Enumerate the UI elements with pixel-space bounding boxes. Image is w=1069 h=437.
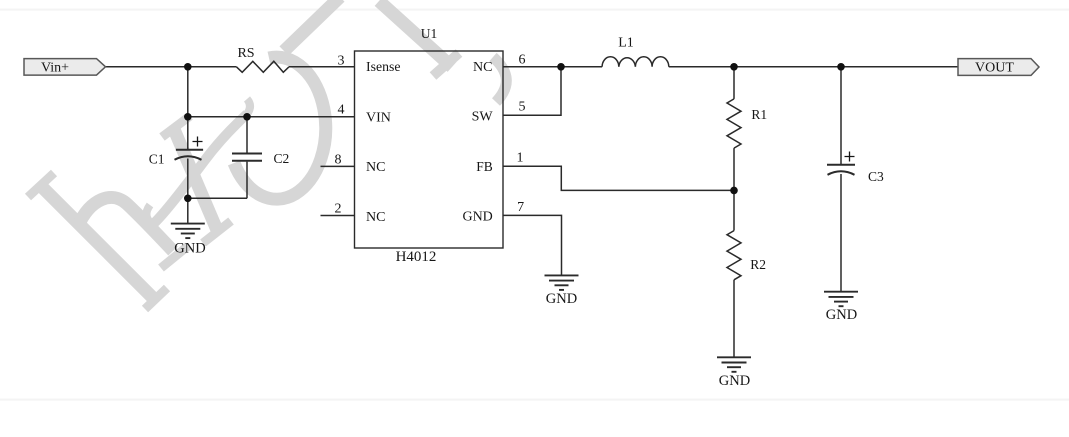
- svg-text:SW: SW: [472, 110, 494, 125]
- capacitor C3 lead bottom: [840, 174, 842, 291]
- svg-text:GND: GND: [719, 373, 750, 389]
- junction Vin input node: [184, 63, 192, 71]
- wire R2 to ground: [733, 280, 735, 357]
- capacitor C1 plates: [175, 150, 204, 160]
- connector VOUT: [958, 59, 1039, 76]
- wire vertical Vin node: [187, 67, 189, 117]
- svg-text:NC: NC: [366, 210, 385, 225]
- svg-text:FB: FB: [476, 159, 493, 174]
- wire pin 5 stub: [503, 67, 561, 116]
- ground symbol C1: [171, 224, 205, 239]
- svg-text:5: 5: [519, 100, 526, 115]
- svg-text:R1: R1: [751, 107, 767, 122]
- wire C2 bottom to C1 bottom: [188, 197, 247, 199]
- ground symbol R2: [717, 357, 751, 372]
- resistor R2: [727, 231, 741, 280]
- wire pin 1 FB: [503, 166, 734, 190]
- resistor R1: [727, 99, 741, 148]
- wire pin 8 stub: [321, 165, 355, 167]
- wire C1 node to ground: [187, 198, 189, 223]
- svg-text:1: 1: [517, 150, 524, 165]
- capacitor C1 lead top: [187, 117, 189, 149]
- junction SW node: [557, 63, 565, 71]
- wire FB node to R2: [733, 190, 735, 230]
- scan artifact band top: [0, 9, 1069, 11]
- ground symbol pin7: [545, 275, 579, 290]
- wire Vin+ to RS: [106, 66, 237, 68]
- junction VOUT node at R1: [730, 63, 738, 71]
- svg-text:VIN: VIN: [366, 110, 391, 125]
- junction VIN node at C1: [184, 113, 192, 121]
- svg-text:NC: NC: [366, 160, 385, 175]
- inductor L1: [602, 57, 669, 67]
- svg-text:RS: RS: [237, 46, 254, 61]
- watermark: [28, 0, 506, 309]
- junction VIN node at C2: [243, 113, 251, 121]
- wire L1 to VOUT: [669, 66, 958, 68]
- svg-text:GND: GND: [462, 210, 492, 225]
- svg-text:GND: GND: [546, 291, 577, 307]
- svg-text:R2: R2: [750, 257, 766, 272]
- resistor R1 leads: [733, 67, 735, 99]
- capacitor C2 lead top: [246, 117, 248, 153]
- wire RS to pin 3: [289, 66, 355, 68]
- svg-text:VOUT: VOUT: [975, 61, 1014, 76]
- svg-text:GND: GND: [174, 241, 205, 257]
- capacitor C2 lead bottom: [246, 162, 248, 199]
- ground symbol C3: [824, 292, 858, 307]
- capacitor C3 plates: [827, 165, 855, 175]
- svg-text:Vin+: Vin+: [41, 60, 69, 75]
- capacitor C2 plates: [232, 154, 262, 161]
- resistor RS: [236, 61, 289, 72]
- scan artifact band bottom: [0, 399, 1069, 401]
- svg-text:C3: C3: [868, 169, 884, 184]
- wire VIN pin 4: [188, 116, 355, 118]
- svg-text:C2: C2: [274, 151, 290, 166]
- C1 plus sign: [193, 137, 203, 147]
- junction FB node: [730, 187, 738, 195]
- capacitor C1 lead bottom: [187, 159, 189, 199]
- svg-text:U1: U1: [421, 26, 438, 41]
- connector Vin+: [24, 59, 106, 76]
- wire pin 6 to L1: [503, 66, 602, 68]
- svg-text:Isense: Isense: [366, 59, 400, 74]
- svg-text:NC: NC: [473, 60, 492, 75]
- capacitor C3 lead top: [840, 67, 842, 164]
- wire R1 to FB node: [733, 148, 735, 190]
- svg-text:4: 4: [338, 103, 345, 118]
- svg-text:H4012: H4012: [396, 249, 437, 265]
- svg-text:7: 7: [517, 200, 524, 215]
- C3 plus sign: [845, 152, 855, 162]
- junction VOUT node at C3: [837, 63, 845, 71]
- IC U1 H4012 body: [355, 51, 504, 248]
- svg-text:2: 2: [335, 201, 342, 216]
- svg-text:L1: L1: [618, 36, 634, 51]
- svg-text:C1: C1: [149, 151, 165, 166]
- svg-text:6: 6: [519, 53, 526, 68]
- svg-text:3: 3: [338, 53, 345, 68]
- wire pin 2 stub: [321, 215, 355, 217]
- svg-text:8: 8: [335, 152, 342, 167]
- junction C1 ground node: [184, 195, 192, 203]
- wire pin 7 GND: [503, 215, 562, 274]
- svg-text:GND: GND: [826, 307, 857, 323]
